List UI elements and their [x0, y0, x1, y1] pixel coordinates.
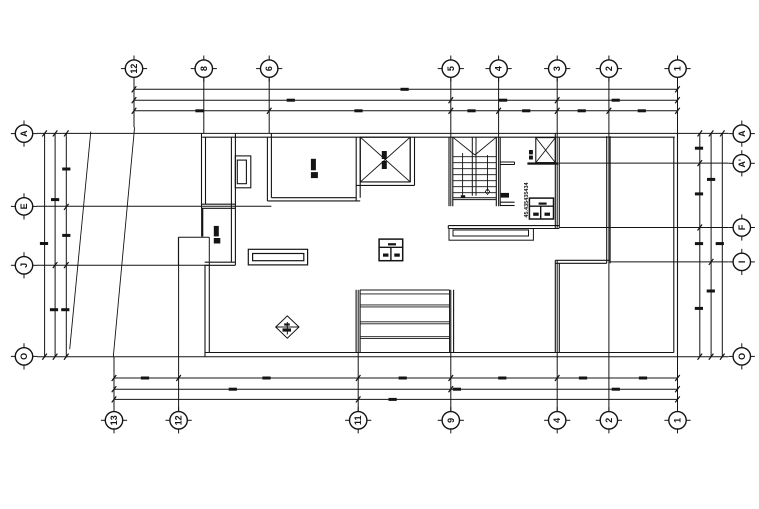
wall bedroom2 bottom — [205, 261, 236, 263]
svg-text:4: 4 — [494, 66, 504, 71]
terrace stair left wall — [355, 290, 357, 353]
stair bottom stub wall — [500, 201, 514, 203]
grid bubble bottom 13 — [105, 412, 122, 429]
table schedule 2 — [529, 198, 553, 219]
svg-text:A: A — [19, 130, 29, 137]
svg-text:I: I — [737, 261, 747, 264]
grid bubble right I — [733, 253, 750, 270]
dimension ticks top — [132, 86, 680, 114]
table 2 text — [539, 203, 547, 205]
table 1 divider — [390, 247, 392, 260]
slanted boundary line 1 — [70, 132, 91, 350]
label big bedroom — [311, 159, 316, 171]
wall right outer — [677, 133, 679, 356]
grid bubble right A' — [733, 155, 750, 172]
stair center divider — [471, 137, 473, 196]
dimension text right — [695, 147, 724, 310]
svg-text:12: 12 — [174, 415, 184, 425]
shaft terrace diagonals — [360, 137, 410, 182]
svg-text:11: 11 — [353, 416, 363, 426]
svg-text:5: 5 — [446, 66, 456, 71]
grid bubble left J — [15, 257, 32, 274]
grid bubble top 4 — [490, 60, 507, 77]
beam thick line under elevator — [527, 162, 558, 164]
stair right wall — [495, 137, 497, 206]
wall big room bottom — [267, 200, 360, 202]
svg-text:J: J — [19, 263, 29, 268]
dimension line bottom 3 — [114, 398, 678, 400]
grid bubble left E — [15, 198, 32, 215]
svg-text:8: 8 — [199, 66, 209, 71]
wall terrace bottom — [360, 181, 410, 183]
grid line I — [610, 261, 728, 263]
grid bubble top 5 — [442, 60, 459, 77]
svg-text:A': A' — [737, 159, 747, 168]
grid bubble bottom 2 — [600, 412, 617, 429]
shaft elevator box — [536, 138, 556, 163]
table 2 header line — [529, 205, 553, 207]
grid bubble left O — [15, 348, 32, 365]
dimension line bottom 1 — [114, 377, 678, 379]
dimension line bottom 2 — [114, 388, 678, 390]
label terrace — [382, 151, 387, 159]
window seat outer — [248, 249, 307, 265]
grid bubble bottom 12 — [170, 412, 187, 429]
table 2 divider — [540, 206, 542, 219]
wall closet bottom — [202, 203, 236, 205]
wall right inner — [673, 137, 675, 352]
stair break line V — [453, 137, 475, 155]
wall terrace right — [409, 137, 411, 182]
grid bubble top 3 — [549, 60, 566, 77]
balcony rail outer — [449, 229, 533, 241]
grid bubble bottom 11 — [350, 412, 367, 429]
grid column 12 top — [133, 77, 135, 127]
grid bubble bottom 4 — [549, 412, 566, 429]
dimension line right 2 — [710, 133, 712, 356]
slanted boundary line 2 (column 12/13) — [113, 127, 134, 357]
table schedule 1 — [379, 239, 403, 261]
stair left wall — [448, 137, 450, 206]
elevation symbol diamond — [276, 316, 299, 338]
dimension line right 3 — [721, 133, 723, 356]
stub wall A-prime — [500, 161, 514, 163]
grid bubble right F — [733, 219, 750, 236]
label elevator — [529, 150, 533, 154]
wall room2 right — [266, 137, 268, 201]
svg-text:A: A — [737, 130, 747, 137]
svg-text:2: 2 — [604, 66, 614, 71]
grid bubble bottom 9 — [442, 412, 459, 429]
wall pocket thick — [201, 208, 203, 237]
grid line J — [37, 264, 210, 266]
dimension line top 2 — [134, 99, 678, 101]
svg-text:6: 6 — [264, 66, 274, 71]
wall closet left — [201, 133, 203, 208]
terrace stair treads — [360, 290, 450, 339]
grid bubble bottom 1 — [669, 412, 686, 429]
wall step room left — [554, 260, 556, 352]
dimension ticks left — [42, 130, 68, 359]
grid column 8 — [203, 77, 205, 133]
wall top inner face — [202, 136, 675, 138]
grid bubble left A — [15, 125, 32, 142]
table 1 text — [388, 243, 396, 245]
dimension line top 3 — [134, 110, 678, 112]
dimension line left 3 — [65, 133, 67, 356]
grid column 2 — [608, 77, 610, 411]
window seat inner — [253, 254, 304, 261]
grid bubble right O — [733, 348, 750, 365]
grid column 13 bottom — [113, 357, 115, 412]
elevation symbol line — [276, 326, 299, 328]
grid column 3 — [556, 77, 558, 228]
grid column 6 — [268, 77, 270, 133]
grid bubble right A — [733, 125, 750, 142]
wall protruding room — [177, 237, 179, 265]
stair landing text blob — [501, 193, 509, 198]
balcony rail inner — [453, 230, 529, 236]
svg-text:9: 9 — [446, 418, 456, 423]
terrace stair right wall — [449, 290, 451, 353]
dimension line left 1 — [44, 133, 46, 356]
shaft terrace box — [360, 137, 410, 182]
svg-text:O: O — [737, 353, 747, 360]
wall elevator shaft left — [554, 133, 556, 228]
grid line E — [37, 205, 271, 207]
dimension text bottom — [141, 377, 647, 401]
svg-text:4: 4 — [552, 418, 562, 423]
dimension line top 1 — [134, 88, 678, 90]
dimension line left 2 — [54, 133, 56, 356]
stair treads — [453, 157, 497, 193]
window room2 — [235, 156, 251, 188]
svg-text:2: 2 — [604, 418, 614, 423]
svg-text:O: O — [19, 353, 29, 360]
grid bubble top 1 — [669, 60, 686, 77]
stair up arrow — [487, 155, 489, 192]
svg-text:13: 13 — [109, 415, 119, 425]
wall bottom (upper face) — [205, 352, 674, 354]
wall big room right — [355, 137, 357, 201]
svg-text:1: 1 — [673, 66, 683, 71]
dimension text left — [40, 168, 71, 312]
svg-text:F: F — [737, 224, 747, 230]
wall step room top — [555, 259, 610, 261]
grid line A — [37, 132, 729, 134]
stair down arrow line — [462, 153, 464, 195]
grid bubble top 6 — [261, 60, 278, 77]
stair landing — [453, 197, 496, 199]
wall main left — [204, 265, 206, 356]
dimension line right 1 — [699, 133, 701, 356]
grid column 12 bottom — [178, 238, 180, 412]
dimension ticks bottom — [112, 375, 680, 402]
svg-text:3: 3 — [552, 66, 562, 71]
svg-text:12: 12 — [129, 64, 139, 74]
wall closet right / bedroom2 right — [230, 137, 232, 262]
svg-text:E: E — [19, 203, 29, 209]
table 1 header line — [379, 246, 403, 248]
grid line F — [559, 227, 728, 229]
grid column 1 — [677, 77, 679, 411]
wall mid right (column 2) — [606, 136, 608, 263]
dimension ticks right — [698, 130, 725, 359]
grid column 4 — [498, 77, 500, 206]
grid bubble top 12 — [125, 60, 142, 77]
elevation symbol text — [284, 323, 290, 325]
label bedroom 2 — [214, 226, 219, 237]
svg-text:1: 1 — [673, 418, 683, 423]
dimension text top — [195, 88, 646, 113]
grid line O — [37, 356, 729, 358]
grid column 11 bottom — [357, 290, 359, 412]
wall F corridor — [448, 225, 559, 227]
grid bubble top 2 — [600, 60, 617, 77]
grid line A' — [559, 162, 728, 164]
grid column 5 — [450, 77, 452, 206]
grid bubble top 8 — [195, 60, 212, 77]
stair down mark — [461, 195, 465, 198]
shaft elevator diagonals — [536, 138, 556, 163]
